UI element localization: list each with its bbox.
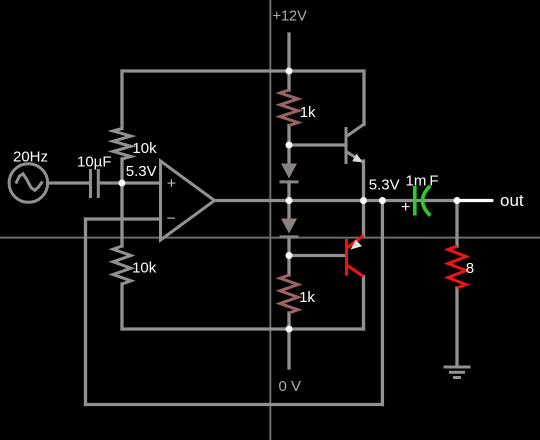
node +12 rail junction [286, 68, 293, 75]
svg-text:out: out [500, 191, 524, 210]
node 0V rail junction [286, 326, 293, 333]
transistor Q2 PNP [347, 236, 364, 277]
horizontal axis line [0, 237, 540, 239]
wire 8 ohm bottom lead to ground [455, 288, 458, 365]
wire 8 ohm top lead [455, 201, 458, 247]
node emitters junction [360, 197, 367, 204]
wire inverting input row [86, 217, 161, 220]
wire +12V stub [287, 34, 290, 71]
node PNP base junction [286, 252, 293, 259]
resistor R3 1k [280, 90, 298, 126]
svg-text:5.3V: 5.3V [126, 163, 157, 180]
svg-text:1k: 1k [299, 289, 315, 306]
resistor R4 1k [280, 275, 298, 313]
wire diode D1 leads [287, 145, 290, 164]
node out/8ohm junction [454, 197, 461, 204]
resistor R2 10k [113, 246, 131, 284]
wire 1k top leads [287, 71, 290, 90]
diode D1 [280, 164, 299, 184]
wire noninverting node down [120, 183, 123, 246]
svg-text:0 V: 0 V [279, 378, 302, 395]
wire 0V stub [287, 329, 290, 368]
wire cap to op-amp + input [100, 181, 161, 184]
svg-text:8: 8 [466, 260, 474, 277]
svg-text:1m F: 1m F [406, 173, 439, 190]
wire feedback bottom rail [86, 403, 383, 406]
wire PNP emitter up to output node [362, 201, 365, 237]
wire D2 to PNP base node [287, 237, 290, 256]
wire NPN base [289, 143, 346, 146]
op-amp U1 [161, 161, 215, 240]
node feedback junction [379, 197, 386, 204]
wire top rail [122, 71, 364, 129]
node in+ junction [119, 180, 126, 187]
wire D2 anode lead [287, 201, 290, 220]
resistor R1 10k [113, 129, 131, 160]
node NPN base junction [286, 142, 293, 149]
svg-text:1k: 1k [300, 104, 316, 121]
svg-text:−: − [167, 211, 176, 228]
svg-text:+: + [401, 199, 410, 216]
wire PNP collector down [362, 277, 365, 330]
svg-text:10k: 10k [132, 140, 157, 157]
wire 1k top bottom lead [287, 126, 290, 146]
svg-text:+: + [167, 175, 176, 192]
AC source V1 20Hz [9, 164, 48, 203]
wire 10k top lead [120, 159, 123, 183]
wire op-amp output to diode node [215, 199, 290, 202]
wire PNP base [289, 254, 346, 257]
capacitor C1 10uF [91, 169, 99, 198]
wire output node to 8 ohm node [289, 199, 457, 202]
capacitor C2 1mF [415, 186, 431, 216]
svg-text:+12V: +12V [273, 9, 308, 25]
diode D2 [280, 219, 299, 239]
vertical axis line [269, 0, 271, 440]
wire NPN emitter down to output node [362, 161, 365, 201]
wire 10k bottom lead to bottom row [122, 284, 364, 329]
wire feedback right vertical [381, 201, 384, 405]
svg-text:20Hz: 20Hz [13, 149, 48, 166]
node output mid junction [286, 197, 293, 204]
resistor R5 8 ohm [448, 246, 466, 288]
transistor Q1 NPN [346, 125, 364, 165]
wire 1k bottom bottom lead [287, 313, 290, 329]
svg-text:10k: 10k [132, 260, 157, 277]
ground symbol [444, 367, 471, 378]
wire white out lead [457, 199, 492, 202]
PNP emitter arrow [351, 240, 363, 250]
wire source to cap [48, 181, 90, 184]
wire feedback left vertical [84, 219, 87, 405]
svg-text:5.3V: 5.3V [369, 177, 400, 194]
wire 1k bottom top lead [287, 256, 290, 276]
svg-text:10µF: 10µF [77, 154, 112, 171]
NPN emitter arrow [352, 154, 363, 163]
wire D1 to output node [287, 182, 290, 201]
